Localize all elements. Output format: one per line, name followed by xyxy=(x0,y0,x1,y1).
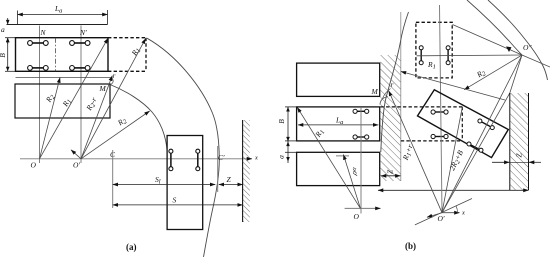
baseline x-axis through O O' C C' xyxy=(20,155,258,162)
rotated vehicle rectangle (b) xyxy=(418,90,509,158)
centre line through dashed vehicle down to O' xyxy=(440,5,443,213)
radius R1+r from O' to M xyxy=(389,91,442,213)
left wall (b) hatched band xyxy=(381,12,401,181)
radius R1 from O' to dashed front corner xyxy=(81,39,146,159)
far right wall (b) xyxy=(510,93,529,190)
line O'' down-right xyxy=(522,55,550,67)
top dashed vehicle (initial street position) xyxy=(416,22,452,78)
dimension Z xyxy=(219,175,243,185)
wheels of final vehicle xyxy=(169,149,200,171)
dimension S xyxy=(113,196,243,205)
vertical guide through N and O xyxy=(39,26,41,164)
diagonal guide line across band xyxy=(401,72,505,101)
dash-dot centre line of vehicle A1 xyxy=(55,38,57,72)
svg-text:N: N xyxy=(40,28,47,37)
svg-text:S: S xyxy=(173,196,177,205)
svg-text:r: r xyxy=(113,71,116,80)
svg-text:(b): (b) xyxy=(405,241,416,251)
svg-text:x: x xyxy=(461,210,465,217)
extension tick at C' xyxy=(217,146,219,192)
axle line from dashed vehicle to O'' xyxy=(417,54,523,57)
radius from O'' to dashed-vehicle corner with arrow xyxy=(453,25,523,56)
vehicle rectangle A2 (second position) xyxy=(15,84,110,118)
vehicle rectangle B2 (middle, with wheels) xyxy=(297,107,380,141)
left swept arc (b) xyxy=(381,12,409,152)
svg-text:(a): (a) xyxy=(126,242,137,252)
tilted axis line through O' xyxy=(415,199,472,225)
extension line below C xyxy=(112,150,114,208)
outer swept arc R2 xyxy=(147,38,219,257)
wheels of dashed initial vehicle xyxy=(431,110,448,139)
svg-text:B: B xyxy=(0,53,7,58)
svg-text:x: x xyxy=(254,155,258,162)
svg-text:N′: N′ xyxy=(79,28,87,37)
svg-text:O′: O′ xyxy=(438,214,445,223)
vehicle rectangle A1 (top, with wheels) xyxy=(16,38,109,72)
dashed initial lane extension (b) xyxy=(381,107,463,141)
x axis at O' (b) xyxy=(442,210,465,217)
dimension a (b) xyxy=(277,142,290,164)
leader from r to fillet xyxy=(383,89,391,99)
extension ticks for B dimension xyxy=(5,37,16,39)
wheels of rotated vehicle xyxy=(467,119,494,152)
radius R1 from O to front outer corner xyxy=(40,38,109,159)
fillet r at M (b) xyxy=(380,97,388,105)
baseline through O (b) xyxy=(345,207,381,209)
dimension La inside B2 xyxy=(298,116,378,127)
arcs near O'' xyxy=(467,0,522,55)
inner swept arc from M xyxy=(110,85,167,152)
wheels of vehicle A1 xyxy=(28,41,90,71)
svg-text:O: O xyxy=(354,212,360,221)
short arrow from O' xyxy=(71,150,81,159)
final position vehicle rectangle (vertical) xyxy=(167,136,203,230)
radius R2 from O' to arc xyxy=(81,111,150,159)
svg-text:a: a xyxy=(1,25,5,34)
vertical guide through N' and O' xyxy=(80,26,82,164)
dimension Z at far wall xyxy=(492,153,541,163)
dimension S1 xyxy=(113,175,216,186)
short arrow from O' down-left xyxy=(427,213,442,218)
dim line between walls (b) xyxy=(378,189,529,191)
dimension B (b) xyxy=(277,107,290,142)
radius rho-a from O to top edge of B3 xyxy=(343,155,360,209)
line O'' to wall corner xyxy=(510,55,522,93)
wall (a) with hatching xyxy=(243,120,250,222)
fillet r at M xyxy=(110,78,113,85)
vehicle rectangle B3 (bottom parked) xyxy=(297,152,380,185)
angle arc at O' xyxy=(456,206,458,213)
dimension a xyxy=(1,18,10,44)
line O' to wall top corner xyxy=(442,93,510,213)
tangent path line of M xyxy=(16,76,111,78)
svg-text:M: M xyxy=(99,84,107,93)
line O' to O'' xyxy=(442,55,522,213)
radius R1 from O to corner of B2 xyxy=(297,107,360,208)
svg-text:C′: C′ xyxy=(218,153,225,162)
svg-text:a: a xyxy=(277,155,286,159)
svg-text:O′: O′ xyxy=(73,161,80,170)
extension ticks for B and a dimensions (b) xyxy=(285,106,297,108)
radius R2 from O'' xyxy=(464,55,522,90)
dimension B xyxy=(0,38,10,72)
wheels of B2 xyxy=(353,109,369,139)
dashed advanced position of vehicle A1 xyxy=(108,38,146,72)
wheels of top dashed vehicle xyxy=(419,46,450,65)
radius R2-r from O' to M xyxy=(81,76,112,159)
street line above vehicle xyxy=(7,24,108,26)
svg-text:O: O xyxy=(31,161,37,170)
vehicle rectangle B1 (top parked) xyxy=(297,63,380,96)
vertical guide through wheels of B2 down to O (b) xyxy=(360,107,362,214)
dimension Z at left wall (b) xyxy=(381,169,400,176)
radius 2R2+B from O' to dashed corner xyxy=(442,107,462,213)
svg-text:B: B xyxy=(277,119,286,124)
dimension La xyxy=(18,4,108,25)
radius R2 from O to tangent point xyxy=(40,78,61,159)
svg-text:M: M xyxy=(371,87,379,96)
